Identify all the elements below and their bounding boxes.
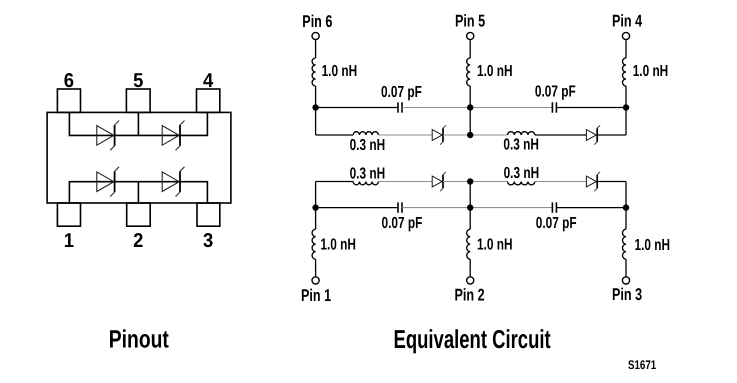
wire right column bus1 to row2 (625, 108, 627, 136)
pin 5 lead (126, 89, 150, 112)
node row3 center (467, 178, 473, 184)
inductor 1.0 nH (Pin 2 branch) (467, 229, 471, 259)
wire inductor to terminal (Pin 2) (469, 259, 471, 277)
wire bottom bus left segment (316, 207, 398, 209)
svg-text:0.07 pF: 0.07 pF (382, 215, 423, 232)
svg-text:1.0 nH: 1.0 nH (320, 237, 356, 254)
inductor 1.0 nH (Pin 4 branch) (623, 58, 627, 86)
wire diode to right corner (top right) (597, 134, 626, 136)
wire bottom bus cap3 to center (grey) (402, 207, 470, 209)
svg-text:Pin 6: Pin 6 (302, 12, 332, 31)
svg-text:2: 2 (133, 230, 143, 252)
wire row3 corner to inductor (316, 181, 354, 183)
wire inductor to top bus (Pin 5) (469, 86, 471, 108)
terminal circle Pin 3 (622, 277, 629, 284)
wire inductor to diode (bottom left, grey) (378, 181, 432, 183)
wire top bus right segment (556, 107, 626, 109)
wire pin2 stub (137, 182, 139, 203)
wire Pin 6 down to inductor (315, 40, 317, 58)
inductor 0.3 nH (bottom left) (353, 182, 378, 185)
inductor 0.3 nH (top right) (508, 132, 535, 135)
capacitor 0.07 pF (bottom left) (397, 202, 399, 212)
wire right column row3 to bus2 (625, 182, 627, 208)
svg-text:Pin 3: Pin 3 (612, 285, 642, 304)
wire center node to inductor (bottom right, grey) (470, 181, 507, 183)
node bottom bus / pin1 column (312, 204, 318, 210)
capacitor 0.07 pF (bottom right) (551, 202, 553, 212)
wire diode to center node (bottom, grey) (443, 181, 470, 183)
terminal circle Pin 6 (312, 32, 319, 39)
wire top bus left segment (316, 107, 398, 109)
wire center column row3 to bus2 (469, 182, 471, 208)
svg-text:Equivalent Circuit: Equivalent Circuit (394, 324, 551, 354)
wire pin5 stub (137, 112, 139, 135)
terminal circle Pin 1 (312, 277, 319, 284)
inductor 1.0 nH (Pin 3 branch) (623, 229, 627, 259)
wire inductor to diode (top right) (535, 134, 587, 136)
svg-text:0.07 pF: 0.07 pF (381, 84, 422, 101)
wire bottom inner row (pins 1-2-3) (69, 182, 207, 203)
svg-text:4: 4 (203, 70, 214, 92)
wire bottom bus to inductor (Pin 1) (315, 208, 317, 230)
svg-text:Pin 5: Pin 5 (455, 12, 485, 31)
wire top inner row (pins 6-5-4) (69, 112, 207, 135)
inductor 0.3 nH (bottom right) (508, 182, 535, 185)
wire bottom bus to inductor (Pin 3) (625, 208, 627, 230)
svg-text:S1671: S1671 (628, 358, 656, 372)
package body (47, 112, 231, 203)
svg-text:1: 1 (64, 230, 74, 252)
svg-text:Pin 2: Pin 2 (455, 285, 485, 304)
node row2 center (467, 132, 473, 138)
svg-text:6: 6 (64, 70, 74, 92)
diode top-right branch (586, 130, 596, 141)
wire center column bus1 to row2 (469, 108, 471, 136)
wire bottom bus to inductor (Pin 2) (469, 208, 471, 230)
svg-text:1.0 nH: 1.0 nH (635, 237, 671, 254)
diode top-left branch (432, 130, 442, 141)
svg-text:5: 5 (133, 70, 143, 92)
wire diode to center node (grey) (443, 134, 470, 136)
node bottom bus / pin2 column (467, 204, 473, 210)
svg-text:0.3 nH: 0.3 nH (350, 165, 386, 182)
pin 4 lead (197, 89, 220, 112)
wire inductor to terminal (Pin 1) (315, 259, 317, 277)
diode D4 (package bottom-right) (162, 172, 179, 192)
svg-text:1.0 nH: 1.0 nH (322, 63, 358, 80)
diode D2 (package top-right) (162, 126, 179, 146)
svg-text:1.0 nH: 1.0 nH (477, 63, 513, 80)
terminal circle Pin 5 (467, 32, 474, 39)
diode D3 (package bottom-left) (97, 172, 114, 192)
wire left column bus1 to row2 (315, 108, 317, 136)
capacitor 0.07 pF (top right) (551, 102, 553, 112)
svg-text:0.3 nH: 0.3 nH (350, 137, 386, 154)
capacitor 0.07 pF (top left) (397, 102, 399, 112)
svg-text:1.0 nH: 1.0 nH (633, 63, 669, 80)
wire inductor to top bus (Pin 4) (625, 86, 627, 108)
wire bottom bus center to cap4 (grey) (470, 207, 552, 209)
wire Pin 5 down to inductor (469, 40, 471, 58)
diode D1 (package top-left) (97, 126, 114, 146)
pin 2 lead (127, 203, 151, 226)
pin 3 lead (197, 203, 220, 226)
wire diode to right corner (bottom) (597, 181, 626, 183)
svg-text:1.0 nH: 1.0 nH (477, 236, 513, 253)
wire center node to inductor (top right, grey) (470, 134, 507, 136)
inductor 0.3 nH (top left) (353, 132, 378, 135)
svg-text:Pinout: Pinout (109, 326, 170, 354)
svg-text:3: 3 (203, 230, 213, 252)
wire top bus center to cap2 (470, 107, 552, 109)
wire top bus cap1 to center (402, 107, 470, 109)
diode bottom-right branch (586, 176, 596, 187)
diode bottom-left branch (432, 176, 442, 187)
svg-text:0.07 pF: 0.07 pF (535, 83, 576, 100)
node top bus / pin6 column (312, 104, 318, 110)
node top bus / pin5 column (467, 104, 473, 110)
node bottom bus / pin3 column (623, 204, 629, 210)
wire inductor to diode (top left, grey) (378, 134, 432, 136)
svg-text:0.3 nH: 0.3 nH (504, 165, 540, 182)
inductor 1.0 nH (Pin 1 branch) (312, 229, 316, 259)
inductor 1.0 nH (Pin 6 branch) (312, 58, 316, 86)
terminal circle Pin 4 (622, 32, 629, 39)
pin 1 lead (57, 203, 80, 226)
wire inductor to top bus (Pin 6) (315, 86, 317, 108)
wire bottom bus right segment (556, 207, 626, 209)
wire Pin 4 down to inductor (625, 40, 627, 58)
svg-text:Pin 4: Pin 4 (612, 12, 642, 31)
wire inductor to diode (bottom right, grey) (535, 181, 587, 183)
wire inductor to terminal (Pin 3) (625, 259, 627, 277)
inductor 1.0 nH (Pin 5 branch) (467, 58, 471, 86)
pin 6 lead (57, 89, 80, 112)
wire row2 corner to inductor (316, 134, 354, 136)
svg-text:0.07 pF: 0.07 pF (536, 215, 577, 232)
node top bus / pin4 column (623, 104, 629, 110)
terminal circle Pin 2 (467, 277, 474, 284)
wire left column row3 to bus2 (315, 182, 317, 208)
svg-text:0.3 nH: 0.3 nH (503, 137, 539, 154)
svg-text:Pin 1: Pin 1 (301, 286, 331, 305)
